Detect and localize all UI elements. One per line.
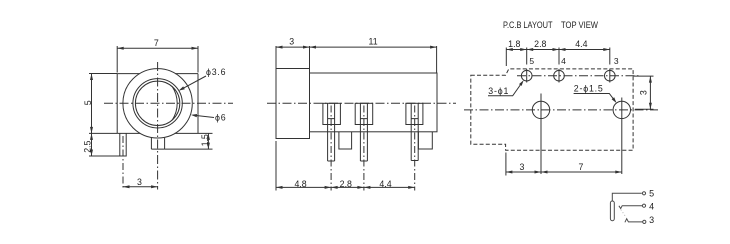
- front view horizontal centerline: [104, 102, 233, 104]
- svg-text:5: 5: [649, 189, 654, 199]
- dimension 3 (side top left): [276, 46, 437, 73]
- side view pin centerline 2: [363, 106, 365, 191]
- pcb big hole middle: [532, 101, 549, 118]
- svg-text:TOP VIEW: TOP VIEW: [561, 20, 598, 30]
- svg-text:1.8: 1.8: [508, 39, 520, 49]
- svg-text:3: 3: [649, 215, 654, 225]
- pcb hole 5 center mark: [526, 69, 528, 83]
- schematic terminal 3: [643, 220, 646, 223]
- schematic wire pin 5: [612, 193, 642, 201]
- svg-text:ϕ6: ϕ6: [215, 112, 226, 122]
- dimension 5 (front left): [89, 74, 117, 157]
- pcb big hole right: [613, 101, 630, 118]
- front view inner contact arc: [172, 86, 177, 120]
- front view ring outer circle: [133, 79, 182, 128]
- svg-text:3: 3: [289, 37, 294, 47]
- svg-text:2.8: 2.8: [340, 179, 352, 189]
- front view center tab: [151, 138, 164, 149]
- side view mounting tab 2: [418, 132, 432, 149]
- dimension 7 (front top): [117, 46, 198, 73]
- pcb hole 5: [521, 70, 532, 81]
- side view pin 2 slot: [360, 103, 367, 161]
- front view vertical centerline: [157, 62, 159, 190]
- side view pin 3 slot: [411, 103, 418, 160]
- dimension 3 and 7 (pcb bottom): [506, 153, 622, 176]
- side view main body: [310, 73, 438, 132]
- leader phi6: [191, 114, 214, 118]
- dimension 2.5 (front lower left): [89, 133, 120, 156]
- side view contact housing 2: [355, 103, 373, 124]
- pcb layout centerline middle row: [464, 109, 658, 111]
- svg-text:2.5: 2.5: [82, 140, 92, 152]
- svg-text:3: 3: [614, 56, 619, 66]
- side view pin centerline 3: [414, 106, 416, 191]
- front view left pin: [120, 133, 126, 156]
- leader phi3.6: [179, 76, 206, 91]
- leader 2-phi1.5: [574, 94, 617, 104]
- svg-text:4: 4: [561, 56, 566, 66]
- front view body square: [117, 74, 198, 134]
- svg-text:4.4: 4.4: [575, 39, 587, 49]
- svg-text:11: 11: [369, 37, 378, 47]
- side view bushing block: [276, 69, 310, 139]
- pcb layout dashed outline: [471, 69, 633, 150]
- dimension 1.5 (front tab height): [165, 133, 213, 149]
- svg-text:1.5: 1.5: [200, 134, 210, 146]
- pcb hole 3 center mark: [609, 69, 611, 83]
- side view contact housing 1: [323, 103, 341, 124]
- svg-text:7: 7: [154, 38, 159, 48]
- svg-text:P.C.B LAYOUT: P.C.B LAYOUT: [503, 20, 553, 30]
- svg-text:7: 7: [579, 162, 584, 172]
- front view outer circle (bushing face): [123, 69, 192, 138]
- leader 3-phi1: [488, 80, 524, 96]
- side view mounting tab 1: [339, 132, 352, 149]
- side view horizontal centerline: [267, 102, 456, 104]
- side view pin 1 slot: [328, 103, 335, 161]
- svg-text:3: 3: [520, 162, 525, 172]
- svg-text:3: 3: [638, 90, 648, 95]
- schematic terminal 4: [642, 204, 645, 207]
- dimension 1.8 2.8 4.4 (pcb top): [506, 48, 610, 67]
- pcb big hole middle center mark: [540, 94, 542, 175]
- svg-text:3: 3: [137, 177, 142, 187]
- schematic contact and wire pin 3: [625, 219, 643, 223]
- svg-text:ϕ3.6: ϕ3.6: [206, 67, 226, 77]
- svg-text:4: 4: [649, 201, 654, 211]
- svg-text:4.8: 4.8: [294, 179, 306, 189]
- front view left pin centerline: [122, 136, 124, 190]
- side view contact housing 3: [406, 103, 423, 124]
- pcb hole 3: [605, 70, 616, 81]
- pcb hole 4: [554, 70, 565, 81]
- pcb layout centerline top row: [517, 75, 639, 77]
- schematic contact and wire pin 4: [619, 206, 643, 209]
- svg-text:4.4: 4.4: [379, 179, 391, 189]
- pcb hole 4 center mark: [558, 69, 560, 83]
- svg-text:5: 5: [83, 100, 93, 105]
- pcb big hole right center mark: [621, 98, 623, 175]
- schematic sleeve bar: [610, 201, 614, 221]
- side view pin centerline 1: [330, 106, 332, 191]
- svg-text:2-ϕ1.5: 2-ϕ1.5: [574, 84, 604, 94]
- dimension 3 (front bottom): [123, 185, 158, 188]
- svg-text:3-ϕ1: 3-ϕ1: [488, 86, 509, 96]
- schematic switch link dotted: [621, 210, 626, 218]
- dimension 4.8 2.8 4.4 (side bottom): [276, 141, 415, 191]
- front view hole circle phi3.6: [135, 81, 179, 125]
- svg-text:2.8: 2.8: [534, 39, 546, 49]
- svg-text:5: 5: [529, 56, 534, 66]
- schematic terminal 5: [642, 192, 645, 195]
- dimension 3 (pcb right vertical): [634, 76, 654, 109]
